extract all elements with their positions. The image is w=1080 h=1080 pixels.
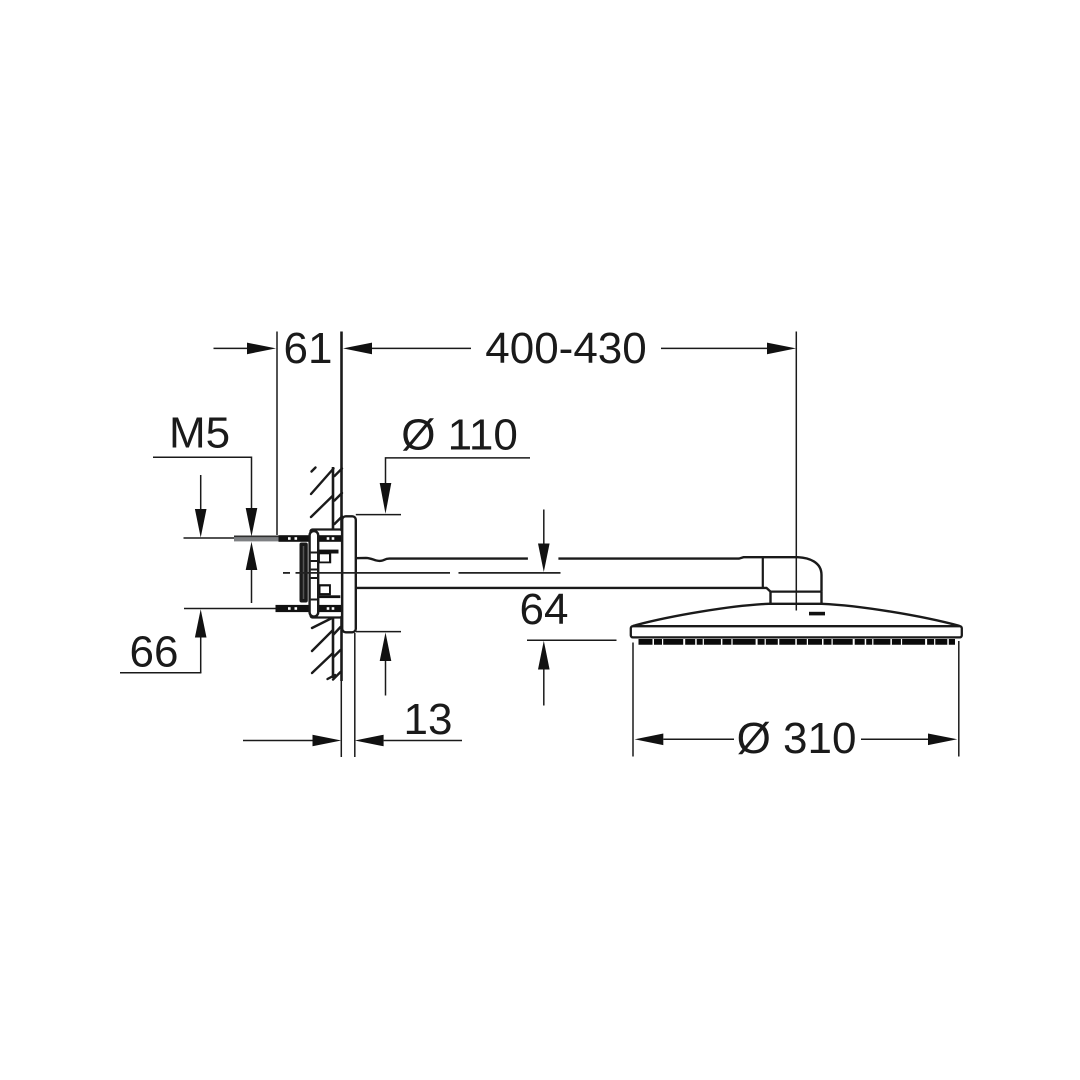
diameter 110 up arrow bbox=[380, 633, 392, 662]
svg-text:400-430: 400-430 bbox=[485, 324, 646, 373]
shower arm top line right of gap bbox=[558, 557, 798, 558]
M5 up arrow bbox=[246, 542, 258, 570]
flange top extension line bbox=[356, 514, 401, 516]
elbow joint line bbox=[762, 557, 764, 588]
M5 down arrow bbox=[246, 508, 258, 537]
svg-text:Ø 310: Ø 310 bbox=[737, 714, 857, 763]
top screw M5 black shaft bbox=[279, 535, 342, 542]
diameter 310 right extension line bbox=[958, 641, 960, 757]
centerline bbox=[283, 572, 561, 574]
M5 leader line bbox=[153, 457, 252, 509]
top screw extension line bbox=[184, 537, 235, 539]
bottom screw black shaft bbox=[276, 605, 342, 612]
diameter 310 left extension line bbox=[632, 643, 634, 757]
dimension 64 bottom extension line bbox=[527, 639, 617, 641]
wall face line bbox=[340, 332, 343, 682]
flange bottom extension line bbox=[356, 631, 401, 633]
top screw M5 gray shaft bbox=[234, 536, 279, 542]
dimension 13 left extension line bbox=[340, 681, 342, 757]
wall inner line bbox=[332, 467, 335, 678]
svg-text:Ø 110: Ø 110 bbox=[401, 411, 518, 460]
dimension 66 down arrow bbox=[200, 475, 202, 510]
shower arm top line with break wave bbox=[355, 558, 528, 561]
dimension 61 extension line bbox=[276, 332, 278, 536]
spray face nozzles bbox=[639, 639, 956, 645]
svg-text:61: 61 bbox=[284, 324, 333, 373]
bottom screw extension line bbox=[184, 608, 276, 610]
escutcheon flange bbox=[342, 516, 356, 632]
shower head rim band bbox=[631, 626, 962, 637]
dimension 64 down arrow bbox=[543, 510, 545, 545]
diameter 310 right arrow bbox=[861, 738, 929, 740]
dimension 13 right arrow bbox=[355, 735, 384, 747]
union pill bbox=[310, 531, 319, 617]
wall hatching lower bbox=[312, 618, 341, 680]
svg-text:66: 66 bbox=[130, 628, 179, 677]
dimension 400-430 right arrow bbox=[661, 347, 768, 349]
lower claw shelf bbox=[319, 595, 341, 598]
head marking dash bbox=[809, 612, 825, 616]
elbow outline bbox=[798, 557, 822, 591]
shower arm bottom line bbox=[355, 588, 771, 592]
wall hatching upper bbox=[311, 468, 342, 525]
elbow bottom line bbox=[771, 590, 822, 592]
svg-text:M5: M5 bbox=[169, 409, 230, 458]
dimension 400-430 left arrow bbox=[343, 343, 372, 355]
dimension 400-430 extension line bbox=[795, 332, 797, 611]
neck left bbox=[769, 592, 771, 605]
diameter 110 leader bbox=[386, 458, 531, 484]
neck right bbox=[820, 592, 822, 605]
dimension 61 arrow left bbox=[214, 347, 249, 349]
dimension 64 up arrow bbox=[538, 641, 550, 670]
concealed mounting body bbox=[311, 530, 343, 618]
upper claw shelf bbox=[319, 550, 339, 554]
diameter 110 down arrow bbox=[380, 483, 392, 514]
dimension 13 left arrow bbox=[243, 740, 314, 742]
svg-text:64: 64 bbox=[520, 585, 569, 634]
lower claw bbox=[319, 584, 331, 595]
C bracket bbox=[300, 543, 308, 603]
svg-text:13: 13 bbox=[404, 695, 453, 744]
dimension 66 leader bbox=[120, 672, 201, 674]
diameter 310 left arrow bbox=[635, 734, 664, 746]
dimension 13 right extension line bbox=[354, 633, 356, 757]
upper claw bbox=[319, 554, 331, 564]
shower head dome bbox=[633, 604, 960, 626]
dimension 66 up arrow bbox=[195, 609, 207, 637]
